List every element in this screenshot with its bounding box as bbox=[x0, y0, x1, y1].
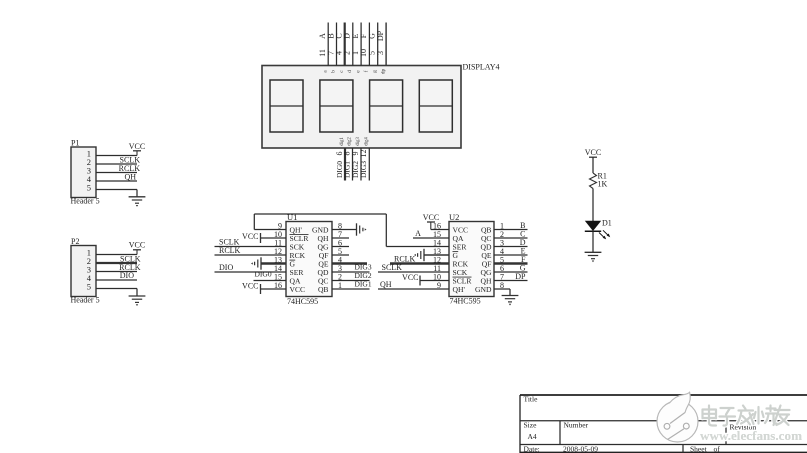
svg-text:VCC: VCC bbox=[402, 273, 418, 282]
svg-text:RCLK: RCLK bbox=[219, 246, 241, 255]
svg-text:5: 5 bbox=[87, 183, 91, 193]
svg-text:1K: 1K bbox=[598, 180, 608, 189]
svg-text:dig3: dig3 bbox=[356, 137, 361, 146]
svg-text:Date:: Date: bbox=[524, 445, 540, 453]
svg-text:5: 5 bbox=[87, 282, 91, 292]
svg-text:dig4: dig4 bbox=[365, 137, 370, 146]
svg-text:2008-05-09: 2008-05-09 bbox=[563, 445, 598, 453]
svg-text:DP: DP bbox=[376, 30, 385, 41]
svg-text:U2: U2 bbox=[449, 212, 459, 222]
svg-text:SCLK: SCLK bbox=[382, 263, 403, 272]
svg-text:A: A bbox=[415, 229, 421, 238]
svg-text:DIG3: DIG3 bbox=[359, 161, 368, 178]
svg-text:QB: QB bbox=[318, 285, 329, 294]
svg-text:dig2: dig2 bbox=[348, 137, 353, 146]
svg-text:Header 5: Header 5 bbox=[71, 296, 100, 305]
svg-text:DIO: DIO bbox=[120, 271, 134, 280]
svg-text:A4: A4 bbox=[528, 432, 537, 441]
svg-text:VCC: VCC bbox=[290, 285, 306, 294]
svg-text:VCC: VCC bbox=[129, 142, 145, 151]
svg-text:Header 5: Header 5 bbox=[71, 197, 100, 206]
svg-text:3: 3 bbox=[376, 51, 385, 55]
svg-text:DIO: DIO bbox=[219, 263, 233, 272]
svg-text:DP: DP bbox=[515, 272, 526, 281]
svg-text:74HC595: 74HC595 bbox=[287, 297, 318, 306]
svg-text:DISPLAY4: DISPLAY4 bbox=[463, 63, 500, 72]
svg-text:QH: QH bbox=[124, 173, 136, 182]
svg-text:Sheet: Sheet bbox=[690, 445, 708, 453]
svg-text:Number: Number bbox=[564, 421, 589, 430]
svg-text:VCC: VCC bbox=[242, 232, 258, 241]
svg-text:VCC: VCC bbox=[585, 148, 601, 157]
svg-text:f: f bbox=[363, 70, 370, 72]
svg-text:Title: Title bbox=[524, 395, 539, 404]
svg-text:dig1: dig1 bbox=[340, 137, 345, 146]
svg-text:DIG1: DIG1 bbox=[355, 279, 372, 288]
svg-text:12: 12 bbox=[359, 150, 368, 158]
svg-text:P2: P2 bbox=[71, 237, 79, 246]
svg-text:www.elecfans.com: www.elecfans.com bbox=[700, 429, 802, 443]
svg-text:d: d bbox=[347, 70, 353, 73]
svg-text:g: g bbox=[372, 70, 378, 73]
svg-text:D1: D1 bbox=[602, 219, 612, 228]
svg-text:QH': QH' bbox=[453, 285, 466, 294]
svg-text:dp: dp bbox=[380, 69, 386, 75]
svg-text:VCC: VCC bbox=[423, 213, 439, 222]
svg-text:of: of bbox=[714, 445, 721, 453]
svg-text:DIG0: DIG0 bbox=[255, 269, 272, 278]
svg-text:b: b bbox=[331, 70, 337, 73]
svg-text:Size: Size bbox=[524, 421, 538, 430]
svg-text:VCC: VCC bbox=[242, 282, 258, 291]
svg-text:P1: P1 bbox=[71, 139, 79, 148]
svg-text:74HC595: 74HC595 bbox=[450, 297, 481, 306]
svg-text:GND: GND bbox=[475, 285, 492, 294]
svg-text:VCC: VCC bbox=[129, 240, 145, 249]
svg-text:QH: QH bbox=[380, 280, 392, 289]
